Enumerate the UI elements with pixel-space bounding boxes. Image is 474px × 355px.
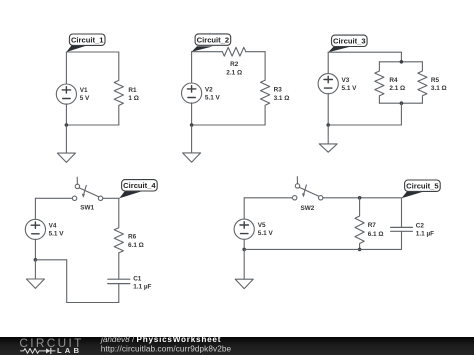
- ground circuit 3: [319, 125, 337, 152]
- svg-text:5 V: 5 V: [80, 95, 90, 102]
- label R5 3.1 Ω: [431, 77, 447, 92]
- svg-text:Circuit_2: Circuit_2: [197, 36, 230, 45]
- resistor R3: [261, 80, 270, 125]
- label V2 5.1 V: [205, 87, 221, 102]
- label C1 1.1 µF: [133, 276, 151, 291]
- logo resistor zigzag: [21, 349, 44, 354]
- wire left upper circuit 3: [327, 52, 329, 74]
- svg-text:R3: R3: [274, 86, 283, 93]
- svg-text:LAB: LAB: [57, 346, 82, 355]
- svg-text:R4: R4: [389, 77, 398, 84]
- wire top right circuit 2: [246, 51, 265, 53]
- voltage source V2: [182, 83, 202, 103]
- label R4 2.1 Ω: [389, 77, 405, 92]
- wire bottom rail circuit 1: [66, 124, 119, 126]
- label C2 1.1 µF: [416, 223, 434, 238]
- label R6 6.1 Ω: [128, 234, 144, 249]
- label V1 5 V: [80, 87, 90, 102]
- callout label Circuit_4: [119, 180, 157, 199]
- svg-text:3.1 Ω: 3.1 Ω: [274, 95, 290, 102]
- capacitor C2: [391, 227, 413, 231]
- wire left lower circuit 3: [327, 93, 329, 125]
- wire bottom rail circuit 4: [67, 302, 119, 304]
- junction circuit 2: [190, 123, 194, 127]
- resistor R6: [114, 198, 123, 253]
- wire bottom rail circuit 3: [328, 124, 401, 126]
- junction circuit 1: [65, 123, 69, 127]
- svg-text:1.1 µF: 1.1 µF: [133, 284, 151, 291]
- wire left lower circuit 2: [191, 103, 193, 125]
- svg-text:R1: R1: [128, 87, 137, 94]
- svg-text:V2: V2: [205, 87, 213, 94]
- label R2 2.1 Ω: [226, 61, 242, 76]
- wire top rail circuit 1: [66, 51, 118, 53]
- junction parallel bottom circuit 3: [400, 101, 404, 105]
- svg-text:6.1 Ω: 6.1 Ω: [368, 231, 384, 238]
- wire right upper circuit 2: [264, 52, 266, 80]
- logo diode: [44, 348, 56, 353]
- wire junction to riser circuit 4: [35, 259, 66, 261]
- svg-text:1.1 µF: 1.1 µF: [416, 231, 434, 238]
- svg-text:V1: V1: [80, 87, 88, 94]
- label V5 5.1 V: [258, 222, 274, 237]
- ground circuit 4: [26, 260, 44, 289]
- svg-text:5.1 V: 5.1 V: [342, 85, 358, 92]
- svg-text:C2: C2: [416, 223, 425, 230]
- wire top left circuit 2: [192, 51, 223, 53]
- wire left lower circuit 1: [65, 104, 67, 125]
- svg-text:SW2: SW2: [300, 205, 314, 212]
- resistor R1: [114, 52, 123, 125]
- junction circuit 5: [242, 248, 246, 252]
- svg-text:2.1 Ω: 2.1 Ω: [226, 69, 242, 76]
- wire bottom riser circuit 4: [66, 260, 68, 303]
- wire switch to corner circuit 5: [323, 197, 402, 199]
- wire bottom rail circuit 5: [244, 248, 401, 250]
- wire top rail circuit 3: [328, 51, 401, 53]
- svg-text:Circuit_4: Circuit_4: [123, 181, 156, 190]
- svg-text:5.1 V: 5.1 V: [49, 231, 65, 238]
- wire left upper circuit 2: [191, 52, 193, 84]
- ground circuit 5: [235, 249, 253, 288]
- svg-text:5.1 V: 5.1 V: [205, 95, 221, 102]
- callout label Circuit_2: [192, 34, 231, 52]
- wire left upper circuit 5: [243, 198, 245, 219]
- svg-text:Circuit_3: Circuit_3: [333, 37, 366, 46]
- svg-text:V4: V4: [49, 223, 57, 230]
- svg-text:Circuit_1: Circuit_1: [71, 36, 104, 45]
- label R3 3.1 Ω: [274, 86, 290, 102]
- voltage source V4: [25, 219, 45, 239]
- svg-text:R2: R2: [230, 61, 239, 68]
- resistor R5: [418, 62, 427, 103]
- wire drop to parallel pair circuit 3: [400, 52, 402, 62]
- label V3 5.1 V: [342, 77, 358, 92]
- wire left lower circuit 5: [243, 239, 245, 249]
- wire top left circuit 4: [35, 197, 72, 199]
- wire parallel top rail circuit 3: [379, 61, 422, 63]
- svg-text:V3: V3: [342, 77, 350, 84]
- svg-text:Circuit_5: Circuit_5: [406, 182, 439, 191]
- label R7 6.1 Ω: [368, 222, 384, 238]
- resistor R2: [222, 47, 246, 56]
- label V4 5.1 V: [49, 223, 65, 238]
- svg-text:R6: R6: [128, 234, 137, 241]
- switch SW2: [293, 177, 323, 200]
- svg-text:3.1 Ω: 3.1 Ω: [431, 85, 447, 92]
- junction circuit 3: [326, 123, 330, 127]
- svg-text:R7: R7: [368, 222, 377, 229]
- svg-text:6.1 Ω: 6.1 Ω: [128, 242, 144, 249]
- ground circuit 2: [183, 125, 201, 162]
- wire R6 to C1 circuit 4: [118, 253, 120, 279]
- junction parallel top circuit 3: [400, 60, 404, 64]
- svg-text:1 Ω: 1 Ω: [128, 95, 138, 102]
- junction circuit 4: [34, 258, 38, 262]
- svg-text:http://circuitlab.com/curr9dpk: http://circuitlab.com/curr9dpk8v2be: [101, 345, 232, 354]
- wire left upper circuit 1: [65, 52, 67, 84]
- svg-text:5.1 V: 5.1 V: [258, 230, 274, 237]
- junction R7 top circuit 5: [358, 196, 362, 200]
- wire bottom rail circuit 2: [192, 124, 266, 126]
- wire top left circuit 5: [244, 197, 292, 199]
- wire parallel bottom rail circuit 3: [379, 102, 422, 104]
- junction R7 bottom circuit 5: [358, 248, 362, 252]
- callout label Circuit_1: [66, 34, 105, 52]
- svg-text:SW1: SW1: [80, 205, 94, 212]
- wire left lower circuit 4: [34, 239, 36, 260]
- wire switch to corner circuit 4: [103, 197, 120, 199]
- svg-text:R5: R5: [431, 77, 440, 84]
- ground circuit 1: [57, 125, 75, 162]
- svg-text:C1: C1: [133, 276, 142, 283]
- wire C1 lower lead circuit 4: [118, 284, 120, 303]
- callout label Circuit_5: [402, 180, 441, 198]
- footer bar: [0, 337, 474, 355]
- switch SW1: [72, 177, 102, 200]
- svg-text:V5: V5: [258, 222, 266, 229]
- resistor R4: [375, 62, 384, 103]
- capacitor C1: [108, 279, 130, 283]
- wire C2 upper lead circuit 5: [401, 198, 403, 227]
- svg-text:jandev8 / PhysicsWorksheet: jandev8 / PhysicsWorksheet: [100, 335, 221, 344]
- resistor R7: [355, 198, 364, 250]
- wire C2 lower lead circuit 5: [401, 231, 403, 249]
- voltage source V5: [234, 219, 254, 239]
- callout label Circuit_3: [328, 35, 367, 52]
- label R1 1 Ω: [128, 87, 138, 102]
- svg-text:2.1 Ω: 2.1 Ω: [389, 85, 405, 92]
- wire drop from parallel pair circuit 3: [400, 103, 402, 125]
- wire left upper circuit 4: [34, 198, 36, 219]
- voltage source V3: [318, 74, 338, 94]
- voltage source V1: [56, 84, 76, 104]
